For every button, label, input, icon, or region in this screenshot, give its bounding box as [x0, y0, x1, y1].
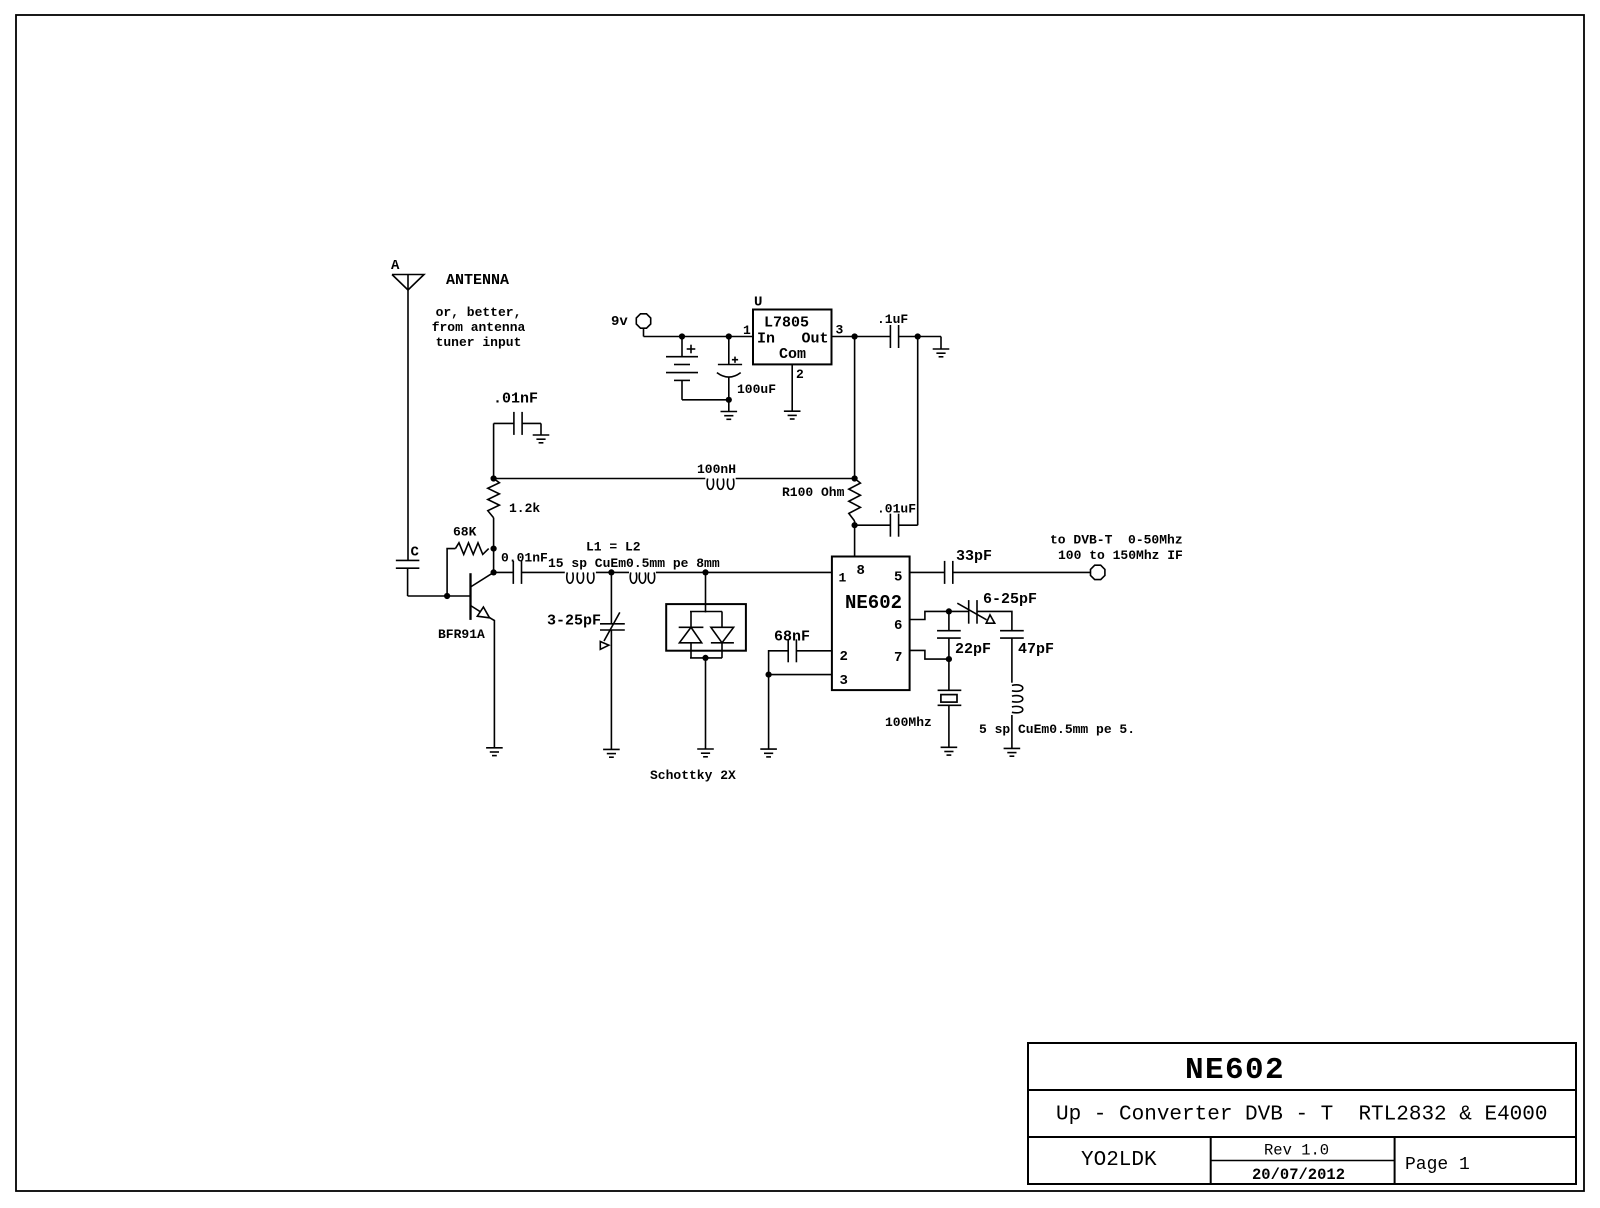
- svg-text:22pF: 22pF: [955, 641, 991, 658]
- svg-text:100uF: 100uF: [737, 382, 776, 397]
- wire to schottky: [705, 572, 707, 612]
- rev date divider: [1211, 1160, 1395, 1162]
- wire junction to trimmer: [949, 610, 969, 612]
- ground under battery: [728, 400, 730, 412]
- svg-text:20/07/2012: 20/07/2012: [1252, 1166, 1345, 1184]
- svg-text:7: 7: [894, 650, 902, 666]
- wire to pin3: [769, 674, 832, 676]
- capacitor .01nF: [493, 423, 495, 478]
- svg-text:to DVB-T 0-50Mhz: to DVB-T 0-50Mhz: [1050, 533, 1183, 548]
- transistor Q1 BFR91A: [469, 573, 471, 620]
- inductor L1: [567, 572, 594, 583]
- junction base bias: [491, 546, 497, 552]
- svg-text:5: 5: [894, 570, 902, 586]
- svg-text:In: In: [757, 331, 775, 348]
- resistor 68K: [455, 543, 488, 555]
- svg-text:Rev 1.0: Rev 1.0: [1264, 1142, 1329, 1160]
- wire .1uF to ground: [899, 336, 941, 338]
- svg-text:.1uF: .1uF: [877, 312, 908, 327]
- svg-text:Out: Out: [801, 331, 828, 348]
- junction L1-L2 node: [608, 569, 614, 575]
- diode D2 right: [721, 612, 723, 628]
- junction 68nF ground node: [766, 672, 772, 678]
- svg-text:47pF: 47pF: [1018, 641, 1054, 658]
- wire battery to ground node: [682, 399, 729, 401]
- svg-text:68nF: 68nF: [774, 629, 810, 646]
- svg-text:Page 1: Page 1: [1405, 1155, 1470, 1175]
- op-amp U1 L7805 box: [753, 310, 832, 365]
- wire R100 to NE602 pin8: [854, 525, 856, 556]
- wire rail right segment: [736, 478, 855, 480]
- svg-text:BFR91A: BFR91A: [438, 627, 485, 642]
- terminal output: [1091, 565, 1105, 579]
- svg-text:68K: 68K: [453, 525, 477, 540]
- junction battery: [679, 333, 685, 339]
- antenna ANT1: [392, 275, 424, 291]
- svg-text:100Mhz: 100Mhz: [885, 715, 932, 730]
- svg-text:100 to 150Mhz IF: 100 to 150Mhz IF: [1058, 548, 1183, 563]
- junction 100uF: [726, 333, 732, 339]
- svg-text:8: 8: [857, 563, 865, 579]
- junction base node: [444, 593, 450, 599]
- diode D1 left: [690, 612, 692, 628]
- resistor R100: [849, 479, 861, 522]
- svg-text:L1 = L2: L1 = L2: [586, 540, 641, 555]
- schottky box: [666, 604, 746, 651]
- svg-text:Schottky 2X: Schottky 2X: [650, 768, 736, 783]
- title block frame: [1028, 1043, 1576, 1184]
- svg-text:R100 Ohm: R100 Ohm: [782, 485, 845, 500]
- ground right of .1uF: [933, 348, 950, 350]
- capacitor 47pF: [1000, 630, 1024, 632]
- junction ground net: [726, 397, 732, 403]
- svg-text:tuner input: tuner input: [436, 335, 522, 350]
- junction under R100: [852, 522, 858, 528]
- svg-text:0.01nF: 0.01nF: [501, 551, 548, 566]
- wire pin6: [910, 611, 949, 619]
- svg-text:1: 1: [743, 323, 751, 338]
- wire rail left segment: [494, 478, 706, 480]
- svg-text:33pF: 33pF: [956, 548, 992, 565]
- wire 68nF node to ground: [768, 675, 770, 750]
- svg-text:100nH: 100nH: [697, 462, 736, 477]
- wire between L1 L2: [596, 571, 629, 573]
- svg-text:Up - Converter DVB - T RTL283: Up - Converter DVB - T RTL2832 & E4000: [1056, 1104, 1547, 1127]
- svg-text:Com: Com: [779, 346, 806, 363]
- svg-text:5 sp CuEm0.5mm pe 5.: 5 sp CuEm0.5mm pe 5.: [979, 722, 1135, 737]
- junction rail left: [491, 475, 497, 481]
- inductor L3 5sp: [1012, 685, 1023, 713]
- wire 33pF to output: [953, 571, 1090, 573]
- title col divider 1: [1210, 1137, 1212, 1184]
- ground under schottky: [697, 748, 714, 750]
- ground under emitter: [486, 747, 503, 749]
- title col divider 2: [1394, 1137, 1396, 1184]
- svg-text:.01uF: .01uF: [877, 502, 916, 517]
- svg-text:L7805: L7805: [764, 315, 809, 332]
- svg-text:NE602: NE602: [845, 592, 902, 614]
- svg-text:2: 2: [840, 649, 848, 665]
- capacitor 33pF: [944, 561, 946, 584]
- capacitor 6-25pF trimmer: [968, 600, 970, 624]
- wire pin5 to 33pF: [910, 571, 945, 573]
- title row divider 1: [1028, 1089, 1576, 1091]
- wire .01uF riser: [917, 337, 919, 526]
- junction collector: [491, 569, 497, 575]
- svg-text:C: C: [411, 545, 420, 561]
- svg-text:or, better,: or, better,: [436, 305, 522, 320]
- ground under crystal: [941, 746, 958, 748]
- junction rail right: [852, 475, 858, 481]
- battery B1: [681, 337, 683, 357]
- svg-text:3-25pF: 3-25pF: [547, 613, 601, 630]
- svg-text:1.2k: 1.2k: [509, 501, 540, 516]
- capacitor .1uF: [889, 325, 891, 348]
- ground under 68nF: [760, 748, 777, 750]
- capacitor 0.01nF: [494, 571, 514, 573]
- capacitor .01uF: [855, 524, 891, 526]
- svg-text:NE602: NE602: [1185, 1053, 1285, 1088]
- svg-text:U: U: [754, 295, 762, 311]
- capacitor 22pF: [948, 611, 950, 630]
- wire schottky to ground: [705, 658, 707, 749]
- wire 5V rail down to 100nH rail: [854, 337, 856, 479]
- junction .1uF right: [915, 333, 921, 339]
- svg-text:6-25pF: 6-25pF: [983, 591, 1037, 608]
- ground under regulator: [784, 410, 801, 412]
- trimmer diagonal: [957, 603, 986, 620]
- wire C to base: [407, 568, 409, 596]
- wire regulator pin2 to ground: [791, 364, 793, 411]
- op-amp U2 NE602 box: [832, 557, 910, 691]
- svg-text:from antenna: from antenna: [432, 320, 526, 335]
- svg-text:6: 6: [894, 618, 902, 634]
- svg-text:2: 2: [796, 367, 804, 382]
- junction crystal top: [946, 656, 952, 662]
- wire Out to .1uF: [832, 336, 891, 338]
- svg-text:9v: 9v: [611, 314, 628, 330]
- wire trimmer to 47pF: [977, 611, 1012, 630]
- crystal 100Mhz: [948, 659, 950, 690]
- svg-text:.01nF: .01nF: [493, 391, 538, 408]
- ground under trimmer: [603, 748, 620, 750]
- 100uF plus sign: [732, 359, 738, 361]
- terminal 9v: [636, 314, 650, 328]
- capacitor 100uF electrolytic: [728, 337, 730, 365]
- resistor 1.2k: [488, 479, 500, 518]
- svg-text:A: A: [391, 258, 400, 274]
- ground under L3: [1004, 747, 1021, 749]
- wire L2 to NE602 pin1: [656, 571, 832, 573]
- capacitor 3-25pF trimmer: [610, 572, 612, 623]
- capacitor C antenna coupling: [396, 559, 420, 561]
- wire antenna down: [407, 290, 409, 560]
- svg-text:ANTENNA: ANTENNA: [446, 272, 509, 289]
- wire 9v to regulator In: [643, 329, 645, 337]
- ground right of .01nF: [533, 434, 550, 436]
- bottom bar: [690, 657, 722, 659]
- svg-text:YO2LDK: YO2LDK: [1081, 1149, 1157, 1172]
- inductor L2: [630, 572, 654, 583]
- top bar: [690, 611, 722, 613]
- trimmer arrow diagonal: [604, 612, 620, 641]
- battery plus sign: [687, 348, 696, 350]
- inductor 100nH: [707, 479, 734, 490]
- junction schottky bottom: [702, 655, 708, 661]
- junction out rail: [852, 333, 858, 339]
- svg-text:3: 3: [836, 323, 844, 338]
- wire pin7: [910, 650, 949, 659]
- capacitor 68nF: [796, 650, 832, 652]
- svg-text:1: 1: [839, 571, 847, 586]
- junction 22pF top: [946, 608, 952, 614]
- svg-text:3: 3: [840, 673, 848, 689]
- title row divider 2: [1028, 1136, 1576, 1138]
- junction schottky node: [702, 569, 708, 575]
- svg-text:15 sp CuEm0.5mm pe 8mm: 15 sp CuEm0.5mm pe 8mm: [548, 556, 720, 571]
- emitter arrow: [477, 607, 489, 618]
